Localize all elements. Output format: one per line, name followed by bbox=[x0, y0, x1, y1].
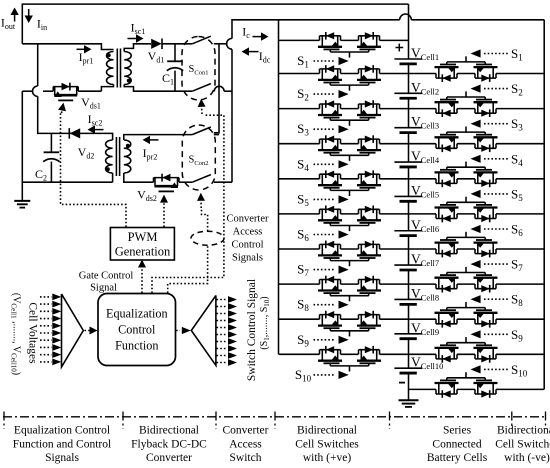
label S6 left bbox=[297, 227, 349, 244]
battery cell 4 bbox=[394, 144, 422, 179]
svg-text:Converter: Converter bbox=[223, 425, 269, 437]
svg-text:Series: Series bbox=[443, 425, 472, 437]
label V_ds2 bbox=[137, 188, 157, 204]
wire S_Con2 out top bbox=[214, 134, 219, 136]
wire T2 right top bbox=[124, 135, 193, 140]
wire T2 left top bbox=[106, 133, 113, 140]
battery cell 6 bbox=[394, 214, 422, 249]
svg-text:with (+ve): with (+ve) bbox=[303, 452, 351, 464]
label S10 left bbox=[295, 367, 349, 384]
wire right row 10 bbox=[409, 388, 545, 390]
wire left row 7 bbox=[279, 283, 409, 285]
battery cell 7 bbox=[394, 249, 422, 284]
wire ellipse stem dotted bbox=[168, 246, 208, 294]
node I_sc1 label bbox=[131, 21, 146, 37]
mosfet V_ds2 bbox=[154, 174, 180, 192]
svg-text:Signals: Signals bbox=[232, 253, 263, 264]
label S_Con1 bbox=[189, 64, 209, 77]
wire eq to PWM dotted bbox=[138, 260, 146, 294]
wire gate ctl dotted to Vds2 bbox=[160, 195, 168, 227]
wire right row 7 bbox=[409, 283, 545, 285]
switch pair S2 (+ve) bbox=[318, 65, 381, 91]
label S6 right bbox=[471, 222, 524, 239]
cell voltage input arrows bbox=[40, 294, 61, 366]
wire C2 bottom bbox=[22, 181, 113, 183]
switch pair S10 (+ve) bbox=[318, 346, 381, 372]
label S3 right bbox=[471, 116, 524, 133]
wire left row 4 bbox=[279, 178, 409, 180]
label S1 right bbox=[471, 46, 523, 63]
label Switch Control Signal bbox=[246, 279, 258, 381]
wire left column rail bbox=[278, 20, 280, 355]
label C1 bbox=[162, 71, 174, 87]
node I_pr2 arrow bbox=[143, 136, 159, 144]
switch pair S1 (+ve) bbox=[318, 32, 381, 58]
label S9 right bbox=[471, 327, 524, 344]
mux left triangle bbox=[62, 294, 84, 367]
ground left bbox=[14, 201, 30, 208]
svg-text:Switch: Switch bbox=[230, 452, 262, 464]
wire right row 9 bbox=[409, 353, 545, 355]
wire primary1 top bbox=[22, 44, 113, 50]
label Converter Access Control Signals bbox=[227, 214, 269, 264]
svg-text:Flyback DC-DC: Flyback DC-DC bbox=[131, 439, 207, 451]
label S7 right bbox=[471, 257, 524, 274]
wire S_Con2 out bottom bbox=[214, 181, 232, 183]
switch pair S6 (+ve) bbox=[318, 206, 381, 232]
svg-text:Bidirectional: Bidirectional bbox=[497, 425, 550, 437]
switch pair S4 (-ve) bbox=[435, 162, 498, 188]
wire inner vertical bbox=[214, 44, 219, 133]
label S_Con2 bbox=[189, 155, 209, 168]
battery cell 10 bbox=[394, 354, 422, 389]
ellipse converter access bbox=[191, 231, 224, 245]
label Signal bbox=[90, 283, 117, 294]
label Generation bbox=[115, 245, 171, 259]
capacitor C2 bbox=[43, 133, 59, 182]
label VCell1..VCell10 bbox=[10, 293, 22, 375]
node I_sc2 arrow bbox=[88, 125, 104, 133]
block Equalization Control Function bbox=[98, 294, 176, 366]
svg-text:Bidirectional: Bidirectional bbox=[139, 425, 199, 437]
node I_dc arrow bbox=[242, 47, 259, 55]
node I_in arrow bbox=[25, 9, 33, 23]
battery cell 8 bbox=[394, 284, 422, 319]
battery cell 2 bbox=[394, 74, 422, 109]
label I_pr2 bbox=[143, 146, 158, 162]
transformer T1 secondary winding bbox=[124, 52, 131, 85]
switch S_Con1 bottom blade bbox=[192, 84, 211, 92]
svg-text:Gate Control: Gate Control bbox=[79, 271, 134, 282]
diode V_d2 bbox=[69, 128, 80, 139]
svg-text:Converter: Converter bbox=[227, 214, 269, 225]
wire right row 3 bbox=[409, 143, 545, 145]
switch pair S2 (-ve) bbox=[435, 91, 498, 117]
svg-text:Access: Access bbox=[229, 439, 262, 451]
svg-text:Connected: Connected bbox=[432, 439, 481, 451]
svg-text:Function: Function bbox=[115, 339, 158, 353]
switch pair S9 (-ve) bbox=[435, 337, 498, 363]
switch S_Con2 dashed oval bbox=[182, 125, 215, 190]
wire secondary1 top cont bbox=[162, 43, 227, 45]
label S1..S10 bbox=[259, 296, 271, 349]
wire left row 1 bbox=[279, 73, 409, 75]
switch pair S1 (-ve) bbox=[435, 56, 498, 82]
wire secondary1 top bbox=[124, 44, 151, 52]
switch pair S6 (-ve) bbox=[435, 232, 498, 258]
wire ground-side lower bbox=[22, 91, 101, 200]
transformer T1 primary dot bbox=[107, 53, 111, 57]
node I_c label bbox=[242, 25, 250, 41]
label Control bbox=[118, 323, 156, 337]
wire right row 2 bbox=[409, 108, 545, 110]
mux right triangle bbox=[191, 295, 216, 365]
wire T2 right bottom bbox=[124, 173, 154, 182]
switch pair S8 (+ve) bbox=[318, 276, 381, 302]
wire left row 6 bbox=[279, 248, 409, 250]
switch S_Con1 top blade bbox=[192, 36, 211, 44]
transformer T1 core bbox=[117, 49, 120, 88]
node I_pr1 label bbox=[79, 50, 94, 66]
wire top line from converter to battery + bbox=[22, 4, 408, 44]
switch pair S4 (+ve) bbox=[318, 135, 381, 161]
svg-text:Converter: Converter bbox=[146, 452, 192, 464]
label V_Cell3 bbox=[411, 114, 439, 131]
wire box to mux dotted bbox=[176, 327, 191, 334]
wire left row 5 bbox=[279, 213, 409, 215]
label S4 left bbox=[297, 156, 349, 173]
battery cell 9 bbox=[394, 319, 422, 354]
wire left row 0 bbox=[279, 39, 409, 41]
wire branch rail bbox=[33, 44, 107, 134]
svg-text:Bidirectional: Bidirectional bbox=[297, 425, 357, 437]
label band equalization bbox=[13, 425, 111, 465]
switch pair S3 (+ve) bbox=[318, 100, 381, 126]
switch S_Con1 dashed oval bbox=[182, 37, 215, 101]
wire secondary1 bottom bbox=[124, 85, 232, 92]
wire right row 8 bbox=[409, 318, 545, 320]
svg-text:Battery Cells: Battery Cells bbox=[427, 452, 488, 464]
label C2 bbox=[35, 167, 47, 183]
label band -ve switches bbox=[495, 425, 550, 465]
label S4 right bbox=[471, 151, 524, 168]
switch pair S5 (-ve) bbox=[435, 197, 498, 223]
label V_Cell4 bbox=[411, 149, 440, 166]
wire left row 2 bbox=[279, 108, 409, 110]
switch S_Con2 top blade bbox=[192, 127, 211, 135]
wire left row 3 bbox=[279, 143, 409, 145]
label V_d1 bbox=[148, 49, 165, 65]
svg-text:Switch Control Signal: Switch Control Signal bbox=[246, 279, 258, 381]
switch pair S5 (+ve) bbox=[318, 170, 381, 196]
svg-text:with (-ve): with (-ve) bbox=[504, 452, 550, 464]
switch S_Con2 bottom blade bbox=[192, 175, 211, 183]
svg-text:Equalization Control: Equalization Control bbox=[14, 425, 110, 437]
divider ticks bbox=[4, 412, 546, 430]
wire left row 8 bbox=[279, 318, 409, 320]
node I_dc label bbox=[259, 49, 271, 65]
divider dash-dot line bbox=[3, 416, 547, 418]
label V_Cell6 bbox=[411, 217, 439, 234]
wire main bus bbox=[232, 14, 544, 39]
label PWM bbox=[128, 230, 158, 244]
capacitor C1 bbox=[167, 44, 183, 91]
node I_pr1 arrow bbox=[77, 45, 92, 53]
block PWM Generation box bbox=[110, 228, 174, 261]
wire right row 6 bbox=[409, 248, 545, 250]
node I_out label bbox=[1, 16, 16, 32]
svg-text:Cell Switches: Cell Switches bbox=[495, 439, 550, 451]
label V_d2 bbox=[78, 145, 95, 161]
label band +ve switches bbox=[295, 425, 359, 465]
label band flyback bbox=[131, 425, 207, 465]
wire ellipse to SCon2 dotted bbox=[197, 193, 208, 231]
label V_Cell5 bbox=[411, 183, 439, 200]
label Cell Voltages bbox=[27, 302, 39, 364]
node I_out arrow bbox=[10, 8, 18, 22]
label V_Cell7 bbox=[411, 252, 439, 269]
transformer T1 primary winding bbox=[107, 52, 114, 85]
switch control output arrows bbox=[217, 296, 238, 366]
transformer T2 right dot bbox=[126, 144, 130, 148]
label S5 left bbox=[297, 191, 349, 208]
switch pair S7 (-ve) bbox=[435, 267, 498, 293]
svg-text:Access: Access bbox=[233, 227, 263, 238]
svg-text:Signals: Signals bbox=[45, 452, 79, 464]
wire T2 left bottom bbox=[112, 173, 114, 182]
wire primary1 bottom bbox=[101, 85, 113, 92]
wire battery rail top bbox=[408, 4, 410, 40]
label Function bbox=[115, 339, 158, 353]
switch pair S8 (-ve) bbox=[435, 302, 498, 328]
label Equalization bbox=[106, 307, 168, 321]
transformer T2 left winding bbox=[106, 140, 113, 173]
svg-text:Cell Voltages: Cell Voltages bbox=[27, 302, 39, 364]
node I_c arrow bbox=[253, 32, 269, 40]
wire right row 5 bbox=[409, 213, 545, 215]
svg-text:Generation: Generation bbox=[115, 245, 171, 259]
label V_Cell2 bbox=[411, 80, 439, 97]
battery cell 1 bbox=[394, 40, 422, 73]
node battery + sign bbox=[396, 44, 404, 52]
transformer T2 left dot bbox=[106, 167, 110, 171]
wire left row 9 bbox=[279, 353, 409, 355]
wire right row 4 bbox=[409, 178, 545, 180]
battery cell 3 bbox=[394, 109, 422, 144]
wire gate ctl dotted to Vds1 bbox=[58, 103, 126, 227]
label S3 left bbox=[297, 121, 349, 138]
transformer T1 secondary dot bbox=[127, 79, 131, 83]
label S5 right bbox=[471, 186, 524, 203]
label V_Cell9 bbox=[411, 320, 439, 337]
svg-text:Equalization: Equalization bbox=[106, 307, 168, 321]
node battery - sign bbox=[399, 382, 405, 384]
switch pair S10 (-ve) bbox=[435, 372, 498, 398]
label V_ds1 bbox=[81, 95, 101, 111]
mosfet V_ds1 bbox=[53, 83, 78, 101]
label S1 left bbox=[297, 53, 349, 70]
wire right row 1 bbox=[409, 73, 545, 75]
label band battery bbox=[427, 425, 488, 465]
label S2 right bbox=[471, 81, 523, 98]
wire converter rail bump bbox=[227, 38, 232, 49]
switch pair S7 (+ve) bbox=[318, 241, 381, 267]
label S7 left bbox=[297, 262, 349, 279]
label S2 left bbox=[297, 86, 349, 103]
svg-text:Signal: Signal bbox=[90, 283, 117, 294]
svg-text:Control: Control bbox=[231, 240, 263, 251]
svg-text:Control: Control bbox=[118, 323, 156, 337]
label V_Cell10 bbox=[411, 355, 443, 372]
label S8 left bbox=[297, 297, 349, 314]
label V_Cell1 bbox=[411, 46, 439, 63]
wire eq to access dotted bbox=[152, 99, 224, 293]
battery cell 5 bbox=[394, 179, 422, 214]
wire right column rail bbox=[543, 20, 545, 390]
wire V_ds2 to switch bbox=[179, 181, 192, 183]
node I_sc2 label bbox=[88, 112, 103, 128]
ground battery bbox=[399, 400, 419, 407]
label band access bbox=[223, 425, 269, 465]
svg-text:PWM: PWM bbox=[128, 230, 158, 244]
label S9 left bbox=[297, 332, 349, 349]
node I_sc1 arrow bbox=[128, 34, 144, 42]
label S10 right bbox=[471, 362, 528, 379]
svg-text:Cell Switches: Cell Switches bbox=[295, 439, 359, 451]
switch pair S3 (-ve) bbox=[435, 127, 498, 153]
label Gate Control bbox=[79, 271, 134, 282]
label V_Cell8 bbox=[411, 286, 439, 303]
transformer T2 core bbox=[116, 137, 119, 176]
diode V_d1 bbox=[151, 39, 162, 50]
node I_in label bbox=[37, 17, 47, 33]
wire converter rail bbox=[231, 49, 233, 182]
switch pair S9 (+ve) bbox=[318, 311, 381, 337]
label S8 right bbox=[471, 292, 524, 309]
transformer T2 right winding bbox=[124, 140, 131, 173]
svg-text:Function and Control: Function and Control bbox=[13, 439, 111, 451]
wire mux to box dotted bbox=[85, 327, 98, 335]
wire battery rail bottom bbox=[408, 389, 410, 399]
